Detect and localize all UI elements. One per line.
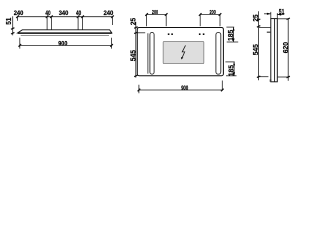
svg-text:51: 51	[6, 18, 13, 25]
svg-text:240: 240	[14, 10, 24, 17]
svg-text:185: 185	[228, 30, 235, 41]
wire top dim line	[18, 16, 113, 18]
bracket nub	[267, 32, 271, 33]
mirror slab top view	[18, 30, 112, 36]
right side exts	[226, 26, 234, 28]
svg-text:40: 40	[76, 10, 82, 17]
dim 900 line bottom	[20, 44, 112, 46]
dim 200 left line	[147, 14, 167, 16]
dim 51 vertical line	[12, 16, 14, 35]
svg-text:40: 40	[45, 10, 51, 17]
front view dimension lines	[136, 15, 238, 94]
slab	[271, 19, 278, 82]
svg-text:545: 545	[253, 44, 260, 55]
620 exts	[277, 18, 289, 20]
dim 51	[264, 13, 271, 15]
dim 900 bottom	[139, 89, 222, 91]
lightning bolt	[181, 45, 186, 59]
dim 185 top vertical	[233, 27, 235, 42]
svg-text:545: 545	[131, 50, 138, 61]
wire right stub	[112, 17, 114, 25]
holes row ext	[136, 32, 145, 34]
shaver panel	[163, 41, 204, 63]
ext above slab	[270, 12, 272, 19]
wire left stub	[17, 17, 19, 21]
900 ext right	[111, 38, 113, 49]
bracket pair 1	[46, 17, 48, 30]
side dims	[258, 11, 290, 81]
51 arrows	[267, 13, 281, 16]
front ticks	[134, 13, 223, 91]
620 dim vertical	[287, 19, 289, 81]
bracket pair 2	[77, 17, 79, 30]
LED strip right	[216, 32, 221, 74]
LED strip left	[147, 33, 149, 73]
svg-text:900: 900	[58, 40, 68, 47]
svg-text:25: 25	[130, 18, 137, 25]
svg-text:900: 900	[181, 85, 188, 92]
mirror outline	[137, 28, 223, 76]
svg-text:340: 340	[59, 10, 69, 17]
svg-text:620: 620	[283, 42, 290, 53]
side ticks	[257, 18, 290, 78]
svg-text:240: 240	[103, 10, 113, 17]
left dim vertical	[258, 11, 260, 80]
dim 185 bottom vertical	[233, 62, 235, 76]
900 ext left	[19, 38, 21, 49]
svg-text:25: 25	[253, 14, 260, 21]
dim 200 right line	[200, 14, 220, 16]
dim 25/545 left vertical	[135, 22, 137, 78]
tick marks top view	[11, 15, 114, 46]
svg-text:51: 51	[279, 9, 285, 16]
svg-text:200: 200	[152, 10, 158, 16]
mounting dots	[168, 33, 205, 35]
185 arrows	[233, 27, 236, 76]
svg-text:185: 185	[228, 65, 235, 76]
svg-text:200: 200	[210, 10, 216, 16]
